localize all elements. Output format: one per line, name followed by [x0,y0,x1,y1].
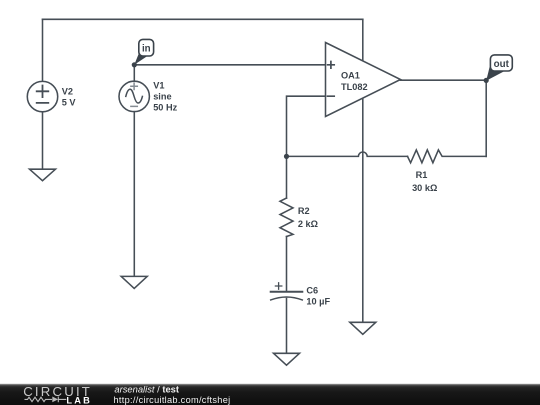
svg-text:C6: C6 [306,285,318,295]
wire V1 to ground [133,112,135,277]
capacitor C6 [271,291,303,293]
svg-text:30 kΩ: 30 kΩ [412,183,437,193]
wire op-amp inverting input [287,96,326,156]
wire V2 to ground [42,112,44,169]
logo resistor-diode squiggle [25,397,67,403]
svg-text:arsenalist / test: arsenalist / test [114,384,179,395]
svg-text:sine: sine [153,91,171,101]
svg-text:TL082: TL082 [341,82,368,92]
flag out [486,55,512,81]
wire feedback with hop over power line [287,152,408,156]
wire V2 to top rail [42,19,44,81]
svg-text:10 µF: 10 µF [306,296,330,306]
svg-text:V1: V1 [153,80,164,90]
voltage source V1 sine [119,81,149,111]
wire output down to feedback [485,80,487,156]
svg-text:50 Hz: 50 Hz [153,103,177,113]
flag in [134,39,153,64]
wire op-amp output [401,79,487,81]
svg-text:http://circuitlab.com/cftshej: http://circuitlab.com/cftshej [114,395,231,405]
svg-text:in: in [142,44,151,55]
voltage source V2 [27,81,57,111]
wire op-amp V+ power pin [362,19,364,60]
ground below op-amp [350,322,376,334]
wire top rail [43,18,363,20]
svg-text:V2: V2 [62,86,73,96]
svg-text:OA1: OA1 [341,71,360,81]
svg-text:2 kΩ: 2 kΩ [298,219,318,229]
resistor R1 [408,150,487,163]
node feedback junction dot [284,154,289,159]
node in junction dot [132,62,137,67]
op-amp OA1 triangle [326,43,401,117]
svg-text:LAB: LAB [66,395,92,405]
svg-text:5 V: 5 V [62,97,77,107]
svg-text:R2: R2 [298,206,310,216]
node out junction dot [484,78,489,83]
wire R2 to C6 [286,237,288,291]
wire op-amp V- power pin to ground [362,99,364,322]
svg-text:out: out [494,59,510,70]
resistor R2 [280,198,293,236]
svg-text:R1: R1 [416,170,428,180]
wire C6 to ground [286,299,288,354]
wire junction to R2 [286,156,288,198]
ground below C6 [274,353,300,365]
wire node in to V1 [133,65,135,81]
wire node in to op-amp + input [134,64,325,66]
ground below V2 [30,169,56,181]
ground below V1 [121,276,147,288]
